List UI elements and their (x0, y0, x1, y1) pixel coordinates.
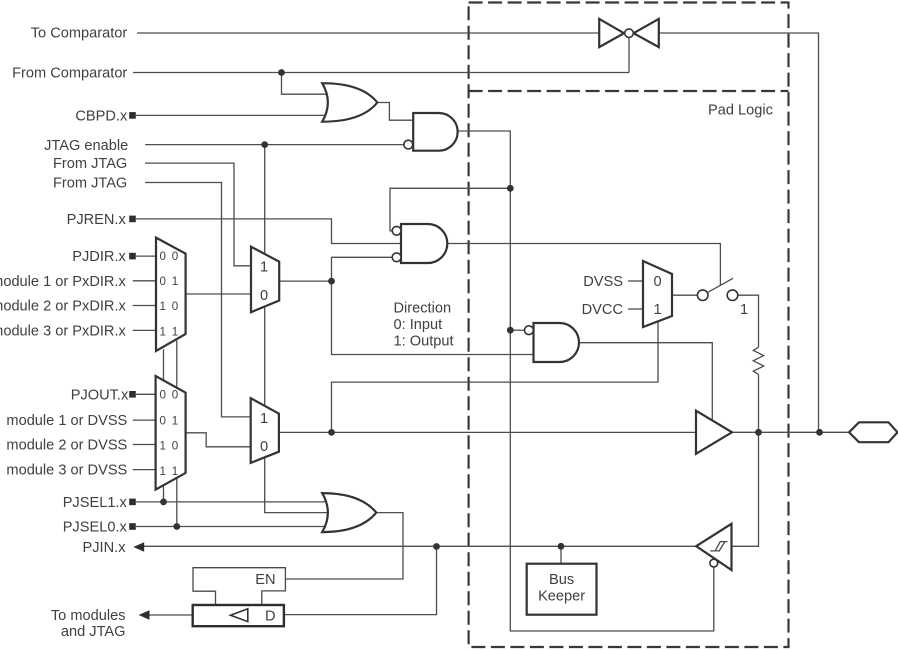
svg-text:1 0: 1 0 (160, 439, 180, 452)
wire bus keeper stub (560, 546, 562, 563)
node PJSEL1 junction (160, 499, 167, 506)
node PJSEL0 junction (173, 523, 180, 530)
wire direction net to mux M5 select (332, 322, 659, 433)
mux M1 (PJDIR select) (156, 238, 186, 351)
terminal square PJSEL1.x (129, 499, 136, 506)
wire PJOUT.x stub (136, 393, 157, 395)
wire module 1 or DVSS stub (133, 419, 157, 421)
wire From JTAG (1) to mux M2 (145, 163, 252, 266)
svg-text:Keeper: Keeper (538, 589, 585, 605)
svg-text:PJREN.x: PJREN.x (67, 212, 127, 228)
terminal square PJSEL0.x (129, 523, 136, 530)
and-gate U1 (JTAG disable) (413, 113, 457, 151)
node U1 output branch junction (507, 185, 514, 192)
latch D block (193, 605, 284, 626)
svg-text:0 0: 0 0 (160, 389, 180, 402)
wire mux M2 output branch up to U2 (332, 257, 393, 281)
svg-text:and JTAG: and JTAG (61, 624, 126, 640)
svg-text:DVSS: DVSS (583, 274, 623, 290)
wire PJSEL0.x select vertical to mux M1 and M3 (176, 341, 178, 527)
wire transmission gate control (628, 38, 630, 73)
svg-text:Bus: Bus (549, 572, 574, 588)
svg-text:module 1 or DVSS: module 1 or DVSS (6, 413, 127, 429)
outer dashed boundary box (469, 3, 789, 648)
wire transmission gate output to pad (659, 33, 819, 432)
arrow To modules and JTAG (139, 610, 150, 619)
node mux M2 output junction (328, 278, 335, 285)
wire U1 branch to U3 inverted input (510, 329, 524, 331)
svg-text:module 2 or PxDIR.x: module 2 or PxDIR.x (0, 299, 126, 315)
latch EN block (193, 568, 285, 605)
wire mux M3 output to mux M4 (186, 433, 252, 447)
svg-text:From JTAG: From JTAG (53, 176, 127, 192)
inverter bubble on U2 bottom input (392, 253, 401, 262)
wire From JTAG (2) to mux M4 (145, 183, 252, 417)
terminal square CBPD.x (129, 112, 136, 119)
wire mux M4 output to output driver (279, 431, 696, 433)
mux M3 (PJOUT select) (156, 376, 186, 490)
wire DVCC stub (628, 308, 644, 310)
wire U1 branch to U2 inverted input (390, 188, 510, 231)
node resistor to pad junction (755, 429, 762, 436)
svg-text:PJIN.x: PJIN.x (83, 540, 127, 556)
svg-text:To modules: To modules (51, 608, 126, 624)
wire mux M5 output to switch (672, 294, 698, 296)
wire module 2 or DVSS stub (133, 444, 157, 446)
wire output driver to pad (732, 431, 849, 433)
wire module 1 or PxDIR.x stub (133, 280, 157, 282)
svg-text:PJSEL1.x: PJSEL1.x (63, 495, 128, 511)
svg-text:1 0: 1 0 (160, 300, 180, 313)
terminal square PJDIR.x (129, 253, 136, 260)
switch S1 (pull resistor enable) (697, 278, 737, 300)
svg-text:D: D (265, 609, 276, 625)
wire PJIN branch to latch D input (284, 547, 437, 615)
inverter bubble on U1 input (404, 140, 413, 149)
wire DVSS stub (628, 280, 644, 282)
pad symbol (849, 422, 898, 442)
arrow PJIN.x (133, 542, 144, 551)
svg-text:1: 1 (740, 302, 748, 318)
wire PJSEL1.x select vertical to mux M1 and M3 (163, 349, 165, 502)
svg-text:0 0: 0 0 (160, 250, 180, 263)
wire To Comparator (137, 32, 599, 34)
nand-gate U2 (pull resistor enable) (401, 224, 447, 263)
resistor R1 (753, 347, 763, 374)
wire schmitt output to PJIN.x (144, 545, 696, 547)
mux M2 (direction JTAG mux) (251, 247, 279, 313)
wire U1 output down and around to schmitt enable (457, 131, 713, 631)
node PJIN to latch junction (433, 543, 440, 550)
wire U2 output to switch control (447, 244, 720, 286)
svg-text:0: 0 (654, 274, 662, 290)
svg-text:PJSEL0.x: PJSEL0.x (63, 520, 128, 536)
svg-text:0 1: 0 1 (160, 415, 180, 428)
wire mux M2 output (279, 280, 331, 282)
svg-text:From Comparator: From Comparator (12, 66, 127, 82)
wire PJREN.x to U2 (136, 219, 401, 244)
terminal square PJREN.x (129, 216, 136, 223)
inverter bubble on U3 top input (525, 326, 534, 335)
wire module 3 or PxDIR.x stub (133, 329, 157, 331)
wire OR2 output to latch EN (285, 513, 403, 579)
wire OR1 output to U1 (377, 103, 413, 121)
svg-text:Pad Logic: Pad Logic (708, 103, 773, 119)
node JTAG enable junction (261, 141, 268, 148)
svg-text:1 1: 1 1 (160, 325, 180, 338)
wire From Comparator branch to OR1 (282, 73, 335, 95)
svg-text:DVCC: DVCC (582, 302, 623, 318)
inverter bubble on U2 top input (392, 226, 401, 235)
wire latch output to modules and JTAG (148, 614, 193, 616)
svg-text:EN: EN (255, 572, 275, 588)
wire From Comparator (133, 72, 629, 74)
terminal square PJOUT.x (129, 391, 136, 398)
wire resistor to pad net (758, 375, 760, 433)
svg-text:To Comparator: To Comparator (31, 26, 128, 42)
wire pad net down to schmitt input (732, 432, 759, 546)
wire PJSEL1.x to OR2 (136, 501, 334, 503)
and-gate U3 (direction) (534, 323, 580, 362)
mux M4 (output JTAG mux) (251, 398, 279, 463)
output driver buffer (696, 411, 732, 454)
wire mux M1 output to mux M2 (186, 293, 252, 295)
svg-text:1: Output: 1: Output (394, 333, 454, 349)
wire mux M2 output branch down to U3 (332, 281, 534, 354)
wire PJSEL0.x to OR2 (136, 526, 330, 528)
or-gate OR1 (comparator enable) (322, 83, 377, 122)
svg-text:From JTAG: From JTAG (53, 156, 127, 172)
node U3 input branch junction (507, 327, 514, 334)
svg-text:PJDIR.x: PJDIR.x (72, 249, 126, 265)
wire switch to resistor (738, 295, 759, 347)
svg-text:Direction: Direction (394, 300, 452, 316)
svg-text:0 1: 0 1 (160, 275, 180, 288)
svg-text:CBPD.x: CBPD.x (75, 108, 128, 124)
node mux M4 output junction (328, 429, 335, 436)
wire CBPD.x to OR1 (136, 114, 334, 116)
svg-text:0: 0 (260, 439, 268, 455)
wire U3 output to driver enable (579, 343, 713, 421)
svg-text:1: 1 (260, 411, 268, 427)
Pad Logic dashed divider (469, 90, 789, 92)
svg-text:module 3 or DVSS: module 3 or DVSS (6, 463, 127, 479)
svg-text:module 3 or PxDIR.x: module 3 or PxDIR.x (0, 323, 126, 339)
node comparator tap junction (816, 429, 823, 436)
svg-text:1: 1 (260, 260, 268, 276)
wire module 2 or PxDIR.x stub (133, 305, 157, 307)
schmitt trigger input buffer (696, 524, 731, 570)
svg-text:PJOUT.x: PJOUT.x (71, 387, 129, 403)
svg-text:module 1 or PxDIR.x: module 1 or PxDIR.x (0, 274, 126, 290)
svg-text:0: Input: 0: Input (394, 317, 443, 333)
mux M5 (DVSS/DVCC pull select) (643, 261, 672, 327)
svg-text:0: 0 (260, 288, 268, 304)
svg-text:1: 1 (654, 302, 662, 318)
wire JTAG enable to U1 (145, 144, 404, 146)
node From Comparator junction (278, 69, 285, 76)
svg-text:JTAG enable: JTAG enable (44, 138, 128, 154)
node bus keeper junction (558, 543, 565, 550)
or-gate OR2 (PJSEL) (322, 493, 376, 532)
svg-text:1 1: 1 1 (160, 465, 180, 478)
wire JTAG enable select vertical to OR2 (265, 145, 334, 513)
wire module 3 or DVSS stub (133, 469, 157, 471)
svg-text:module 2 or DVSS: module 2 or DVSS (6, 438, 127, 454)
wire PJDIR.x stub (136, 255, 157, 257)
transmission gate U6 (599, 19, 659, 47)
bus keeper block (527, 564, 597, 615)
